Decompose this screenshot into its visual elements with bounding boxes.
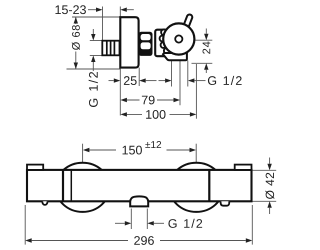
dim 100 text	[146, 110, 165, 119]
G12 left thread top tick	[90, 40, 102, 42]
dim 79 right arrow	[174, 98, 181, 102]
threaded S-union connector	[102, 41, 119, 56]
dim 25 right shaft	[146, 80, 157, 82]
dim 15-23 arrow left-pointing	[120, 8, 127, 12]
dim 150 line	[89, 149, 189, 151]
dim 15-23 arrow right-pointing	[96, 8, 103, 12]
outlet G12 text	[208, 76, 242, 85]
dim 150 tolerance text	[145, 141, 161, 148]
connector nut lower window	[141, 42, 151, 49]
outlet left extension line bottom view	[130, 209, 132, 230]
handle lever stub	[184, 14, 193, 27]
dim 100 line	[127, 113, 190, 115]
dia42 text rotated	[168, 219, 202, 228]
dia68 bottom extension line	[67, 68, 121, 70]
G12 bottom left-pointing arrow	[147, 221, 154, 225]
left handle ridge	[27, 165, 43, 170]
dia42 bottom extension line	[253, 200, 277, 202]
left handle joint	[62, 170, 64, 201]
G12 bottom right-pointing arrow	[125, 221, 132, 225]
outlet right extension line bottom view	[146, 209, 148, 230]
outlet G12 right-pointing arrow	[165, 78, 172, 82]
escutcheon front-face extension line	[138, 68, 140, 86]
wall extension line	[102, 7, 104, 41]
right handle joint	[208, 170, 210, 201]
dia42 arrow up	[267, 201, 271, 208]
right escutcheon circle	[169, 163, 223, 212]
connector nut upper window	[141, 34, 151, 40]
dim 296 right arrow	[246, 238, 253, 242]
dim 79 left arrow	[120, 98, 127, 102]
G12 left thread bottom tick	[90, 55, 102, 57]
dim 100 left arrow	[120, 112, 127, 116]
G12 bottom text	[265, 173, 274, 199]
dim 24 arrow up	[204, 63, 208, 70]
outlet axis extension line	[179, 61, 181, 106]
escutcheon back-face extension line	[119, 7, 121, 116]
outlet right extension line	[187, 61, 189, 87]
dia42 lower shaft	[269, 208, 271, 214]
dia42 upper shaft	[269, 158, 271, 164]
handle scallops	[160, 29, 170, 53]
dim 296 left extension line	[24, 205, 26, 245]
G12 bottom right shaft	[154, 222, 164, 224]
dim 150 right arrow	[190, 148, 197, 152]
dim 24 arrow down	[204, 34, 208, 41]
handle hub	[175, 35, 182, 42]
dim 15-23 text	[55, 5, 85, 14]
dim 150 right extension line	[195, 144, 197, 163]
dim 150 text	[123, 146, 142, 155]
outlet left extension line	[171, 61, 173, 87]
dim 25 left shaft	[109, 80, 114, 82]
bottom outlet	[130, 196, 148, 206]
dia42 arrow down	[267, 164, 271, 171]
dia68 arrow up	[74, 17, 78, 24]
left escutcheon circle	[56, 163, 110, 212]
dim 79 text	[142, 96, 155, 105]
handle front extension line	[195, 64, 197, 119]
G12 left arrow down	[91, 34, 95, 41]
G12 bottom left shaft	[115, 222, 125, 224]
valve body	[155, 30, 172, 57]
dim 150 left extension line	[82, 144, 84, 163]
dim 25 arrow right-pointing	[114, 78, 121, 82]
dim 296 right extension line	[251, 205, 253, 245]
dia68 arrow down	[74, 63, 78, 70]
dim 296 text	[134, 236, 154, 245]
safety button bump	[42, 201, 47, 205]
dim 100 right arrow	[190, 112, 197, 116]
dim 24 lower shaft	[205, 70, 207, 73]
dim 24 bottom extension line	[192, 62, 213, 64]
dia68 top extension line	[72, 16, 120, 18]
dia68 dimension line	[75, 17, 77, 69]
dim 15-23 line left shaft	[88, 9, 96, 11]
right handle ridge	[235, 165, 252, 170]
outlet G12 right shaft	[194, 80, 205, 82]
eco button bump	[221, 201, 230, 205]
dim 24 text rotated	[203, 42, 211, 54]
dim 15-23 right shaft	[127, 9, 134, 11]
G12 left dim line	[92, 29, 94, 71]
outlet G12 left arrow shaft	[159, 80, 166, 82]
dim 296 line	[32, 240, 246, 242]
dim 79 line	[127, 99, 174, 101]
dim 25 text	[124, 76, 137, 85]
dim 25 arrow left-pointing	[139, 78, 146, 82]
dim 296 left arrow	[25, 238, 32, 242]
handle foot	[163, 53, 187, 60]
dim 24 top extension line	[195, 39, 213, 41]
G12 left text rotated	[89, 72, 98, 107]
outlet G12 left-pointing arrow	[188, 78, 195, 82]
dim 24 upper shaft	[205, 29, 207, 34]
escutcheon side view	[120, 17, 138, 67]
handle disc	[163, 23, 194, 54]
G12 left arrow up	[91, 56, 95, 63]
dim 150 left arrow	[83, 148, 90, 152]
mixer bar outline	[27, 170, 252, 201]
dia42 top extension line	[253, 169, 277, 171]
dia68 text rotated	[72, 25, 80, 50]
connector nut	[139, 32, 153, 56]
